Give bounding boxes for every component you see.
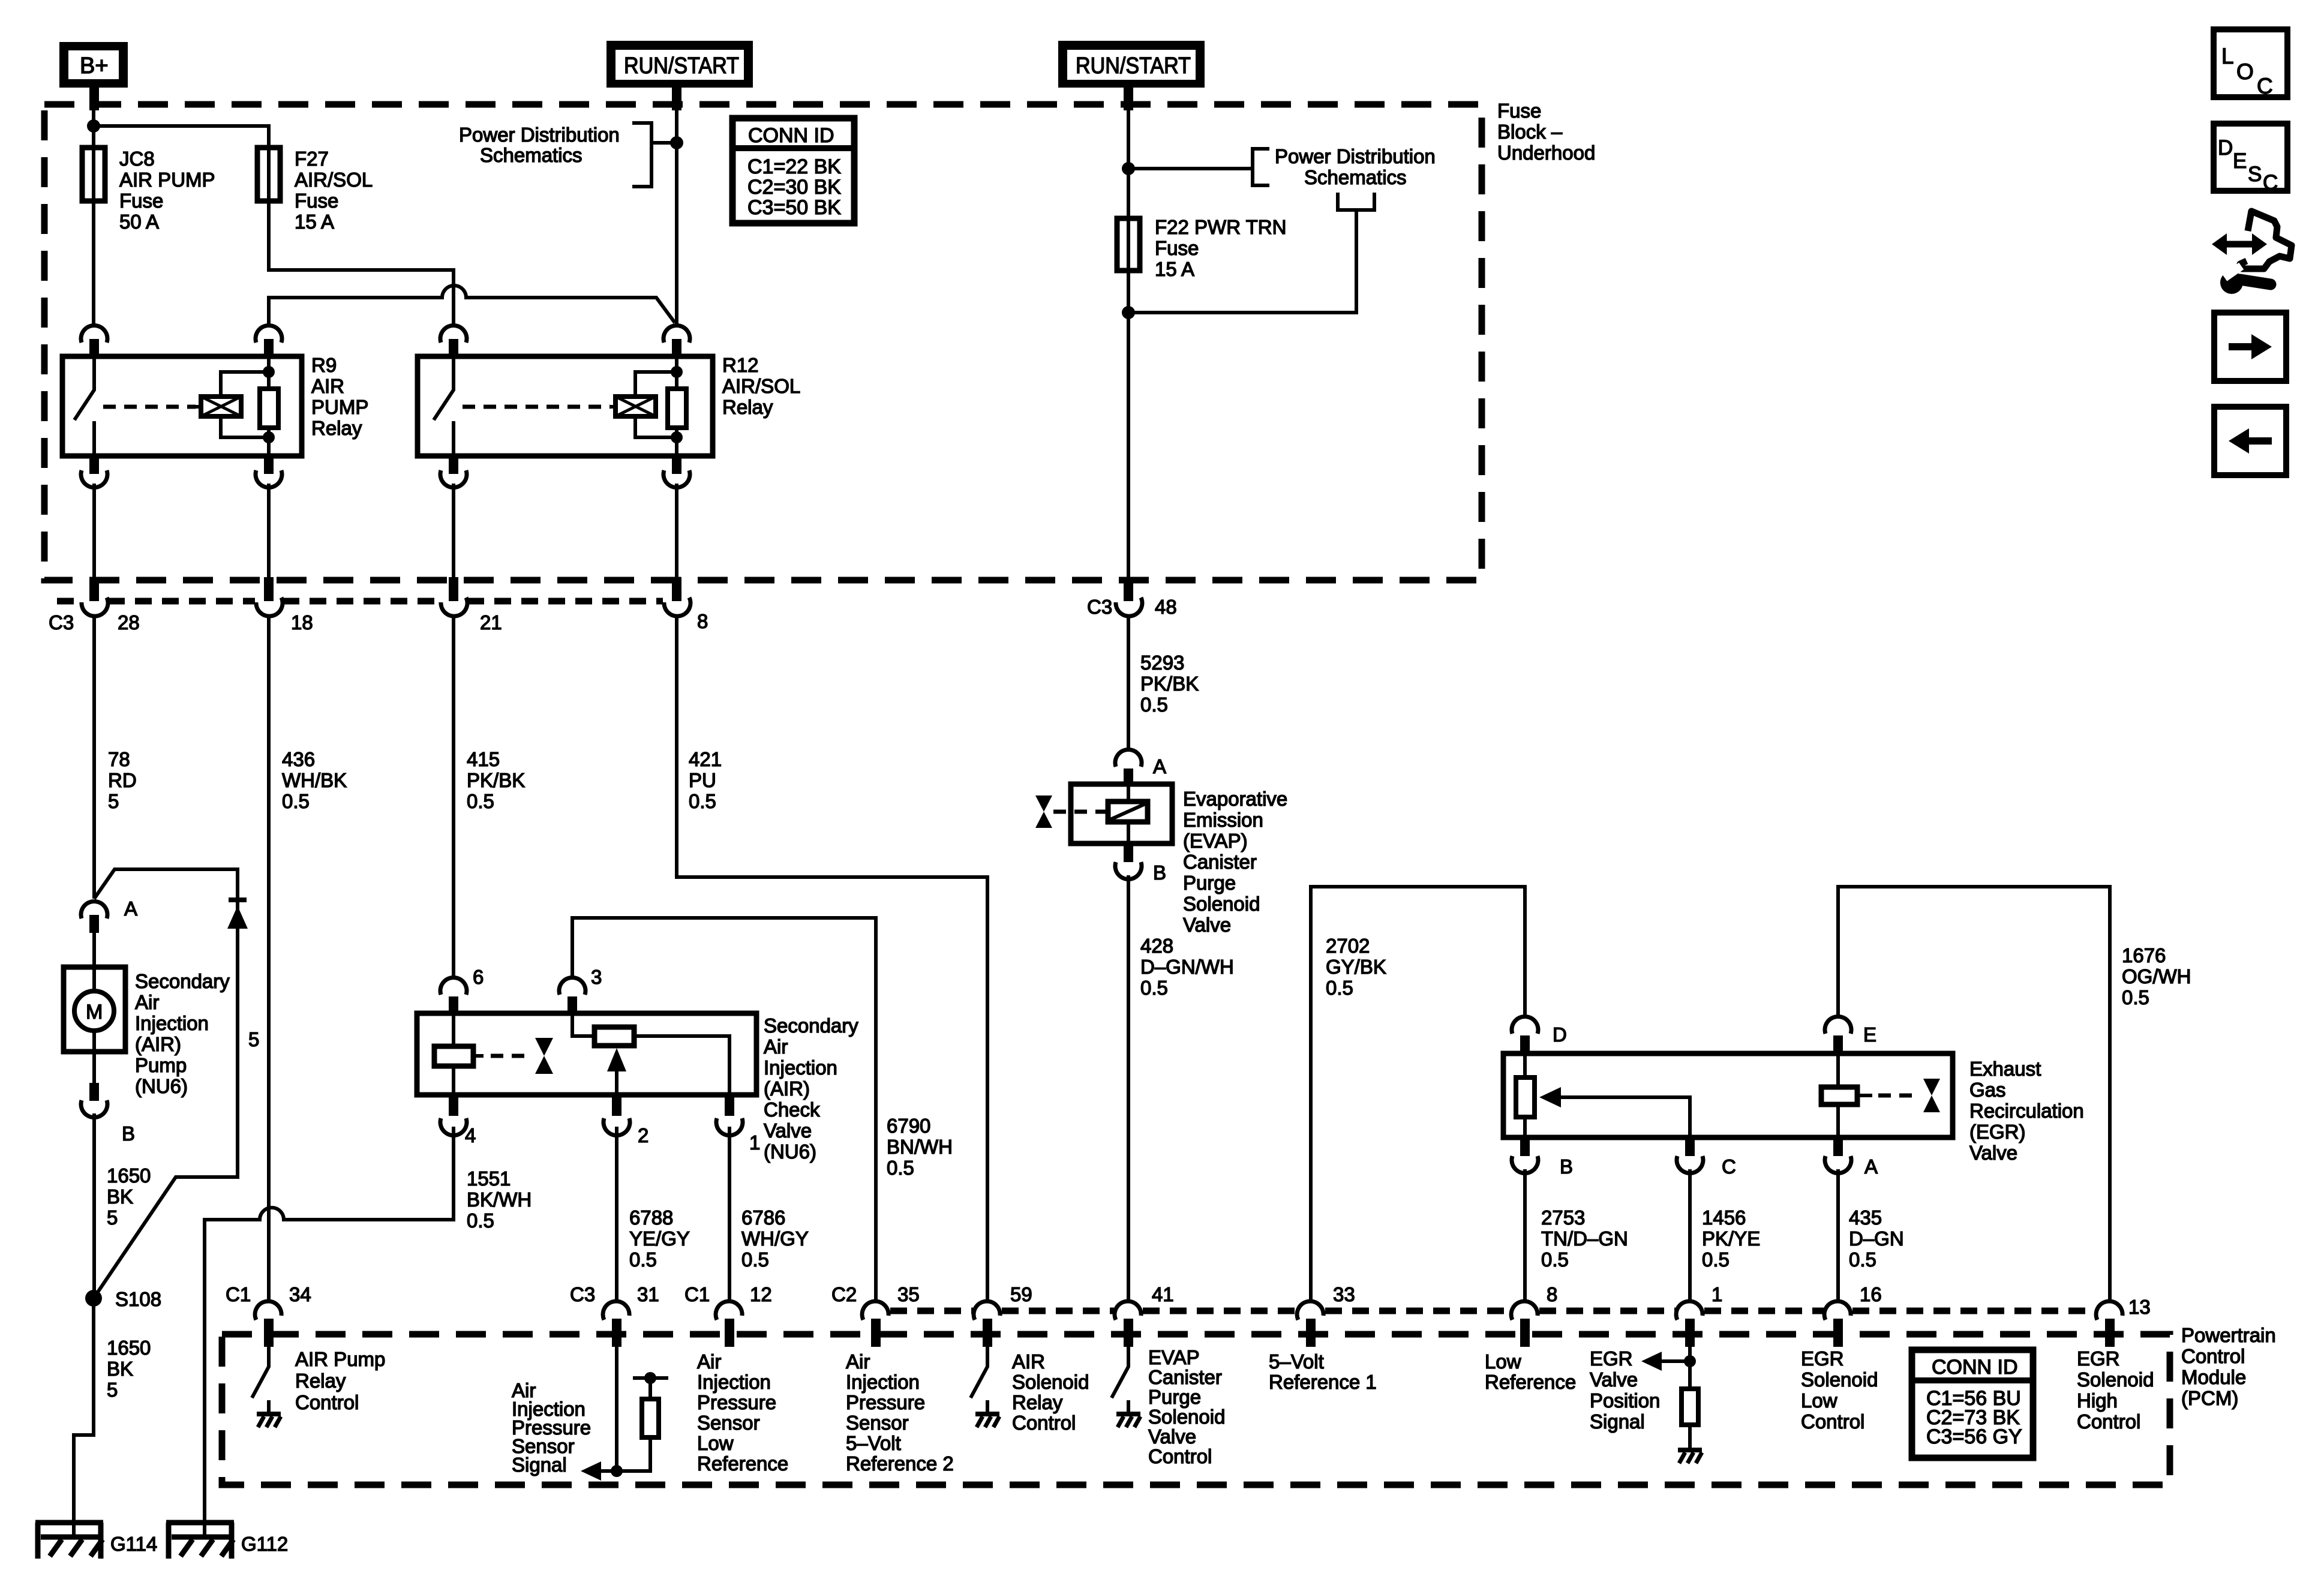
svg-text:D–GN/WH: D–GN/WH [1140,956,1234,978]
svg-text:D–GN: D–GN [1849,1227,1904,1250]
pin arc EVAP B [1124,843,1133,862]
svg-text:6786: 6786 [741,1206,785,1229]
coil actuate dash R12 [463,405,610,409]
svg-text:PUMP: PUMP [311,396,368,418]
svg-text:EVAP: EVAP [1148,1346,1200,1368]
svg-text:Canister: Canister [1148,1366,1222,1388]
EGR valve box [1503,1053,1953,1137]
resistor R9 [267,356,271,456]
wire 2702 GY/BK from PCM pin 33 to EGR pin D [1311,887,1525,1303]
svg-text:Injection: Injection [697,1371,771,1393]
node junction to schematic reference lower [1122,306,1135,319]
svg-text:6788: 6788 [629,1206,673,1229]
pin arc PCM at x=3064 [1824,1301,1851,1320]
svg-text:High: High [2077,1389,2118,1412]
svg-text:1676: 1676 [2122,944,2166,966]
svg-text:Schematics: Schematics [480,144,582,166]
svg-text:0.5: 0.5 [467,1209,494,1232]
svg-text:Signal: Signal [1590,1410,1645,1433]
AIR check valve box [417,1013,756,1095]
svg-text:59: 59 [1010,1283,1032,1305]
wire RUN/START 2 through F22 [1127,88,1130,218]
pin arc EGR C [1685,1137,1695,1156]
relay R9 [62,325,368,487]
coil leads R12 [635,372,677,437]
svg-text:(NU6): (NU6) [135,1075,188,1097]
svg-text:A: A [124,897,137,920]
svg-text:Recirculation: Recirculation [1969,1100,2084,1122]
pin arc check valve 6 [440,977,467,995]
pin arc R12 bottom right [672,456,681,474]
svg-text:436: 436 [282,748,315,770]
pin arc connector C3 at x=1128 [664,598,690,616]
svg-text:CONN ID: CONN ID [748,124,834,147]
node RUN/START 1 box [606,41,753,88]
svg-text:28: 28 [118,611,140,634]
bracket reference 1 [632,123,677,187]
wire 5293 PK/BK from pin 48 to EVAP pin A [1127,616,1130,750]
svg-text:0.5: 0.5 [741,1248,769,1271]
wire RUN/START 2 stub [1124,88,1133,110]
svg-text:Reference 1: Reference 1 [1269,1371,1377,1393]
node junction RUN/START 1 to schematic reference [670,136,683,149]
pressure sensor in check valve [572,1013,594,1036]
svg-text:WH/BK: WH/BK [282,769,347,791]
svg-text:C1: C1 [684,1283,710,1305]
pin arc R9 85 (bottom right) [264,456,274,474]
svg-text:Fuse: Fuse [295,190,338,212]
CONN ID table 1 [732,118,854,223]
svg-text:Low: Low [697,1432,734,1454]
svg-text:BK/WH: BK/WH [467,1188,532,1211]
svg-text:428: 428 [1140,935,1173,957]
svg-text:5–Volt: 5–Volt [1269,1350,1324,1373]
svg-text:JC8: JC8 [119,148,155,170]
switch R12 [434,356,454,456]
pin arc R12 switch top [440,325,467,343]
svg-text:AIR Pump: AIR Pump [295,1348,385,1370]
svg-text:50 A: 50 A [119,211,159,233]
svg-text:Secondary: Secondary [764,1014,858,1037]
svg-text:AIR/SOL: AIR/SOL [722,375,800,397]
svg-text:Reference 2: Reference 2 [846,1452,954,1475]
relay R12 [418,325,800,487]
svg-text:Control: Control [2077,1410,2140,1433]
svg-text:34: 34 [289,1283,311,1305]
svg-text:Control: Control [1148,1445,1212,1467]
fuse block - underhood dashed box [44,104,1482,580]
svg-text:Reference: Reference [697,1452,788,1475]
pin arc EGR E [1825,1016,1851,1034]
wire 1456 PK/YE from EGR C to PCM pin 1 [1688,1169,1692,1303]
svg-text:S: S [2248,163,2262,186]
motor M [74,991,114,1031]
svg-text:33: 33 [1333,1283,1355,1305]
svg-text:421: 421 [689,748,722,770]
svg-text:Relay: Relay [722,396,773,418]
svg-text:Fuse: Fuse [119,190,163,212]
svg-text:Solenoid: Solenoid [1012,1371,1089,1393]
CONN ID table 2 [1912,1350,2033,1458]
svg-text:OG/WH: OG/WH [2122,965,2191,987]
svg-text:PK/BK: PK/BK [1140,673,1199,695]
PCM signal arrow resistor ground below pin 1 [1662,1347,1690,1449]
wire pump bottom [92,1031,96,1086]
fuse JC8 [82,148,105,201]
icon arrow left box [2214,407,2286,475]
wire R12 pin down right [675,484,678,577]
ground G112 [166,1523,288,1559]
wire F22 down to C3 pin 48 [1127,271,1130,577]
svg-text:Injection: Injection [135,1012,209,1034]
svg-text:Control: Control [1012,1412,1076,1434]
svg-text:2702: 2702 [1326,935,1370,957]
pin arc R9 87 (bottom left) [89,456,99,474]
svg-text:Position: Position [1590,1389,1660,1412]
wire 415 PK/BK down from pin 21 to check valve pin 6 [452,616,455,978]
PCM switch and ground below pin 41 [1112,1347,1128,1413]
pin arc check valve 4 [449,1095,458,1116]
svg-text:C: C [2257,74,2273,98]
wire 1676 OG/WH from PCM pin 13 to EGR pin E [1838,887,2110,1303]
pin arc R9 30 (switch top) [81,325,107,343]
pin arc connector C3 at x=448 [256,598,283,616]
svg-text:16: 16 [1860,1283,1882,1305]
wire stub through fuse block border at x=448 [264,577,274,601]
icon DESC box [2214,124,2287,194]
svg-text:15 A: 15 A [295,211,334,233]
svg-text:6790: 6790 [887,1115,930,1137]
coil R12 (box with X) [615,397,656,416]
svg-text:C3: C3 [570,1283,595,1305]
svg-text:C3=56 GY: C3=56 GY [1926,1425,2022,1448]
svg-text:C2=30 BK: C2=30 BK [747,176,841,199]
svg-text:Emission: Emission [1183,809,1263,831]
wire 2753 TN/D-GN from EGR B to PCM pin 8 [1523,1169,1527,1303]
svg-text:C3: C3 [49,611,74,634]
coil actuate dash R9 [103,405,196,409]
svg-text:Solenoid: Solenoid [2077,1368,2154,1391]
svg-text:G112: G112 [241,1533,288,1555]
svg-text:PU: PU [689,769,716,791]
svg-text:M: M [86,1001,103,1023]
pin arc EGR A [1833,1137,1843,1156]
svg-text:3: 3 [591,966,602,988]
svg-text:Valve: Valve [1148,1425,1196,1448]
valve symbol check valve [535,1038,553,1056]
wire into pump [92,932,96,991]
svg-text:415: 415 [467,748,500,770]
wire branch to diode from pump pin A [94,869,238,1298]
svg-text:E: E [2233,149,2247,173]
svg-text:G114: G114 [110,1533,157,1555]
svg-text:5: 5 [107,1206,118,1229]
wire 436 WH/BK down from pin 18 to PCM pin 34 [267,616,271,1303]
svg-text:6: 6 [473,966,484,988]
svg-text:1: 1 [1712,1283,1722,1305]
svg-text:RUN/START: RUN/START [624,53,739,79]
wire R9 pin 85 down [267,484,271,577]
pin arc check valve 2 [612,1095,621,1116]
svg-text:18: 18 [291,611,313,634]
svg-text:0.5: 0.5 [629,1248,657,1271]
svg-text:WH/GY: WH/GY [741,1227,809,1250]
pin arc PCM at x=1646 [974,1301,1000,1320]
svg-text:BN/WH: BN/WH [887,1136,953,1158]
svg-text:15 A: 15 A [1155,258,1194,280]
PCM connector short-dash line [890,1308,973,1314]
svg-text:0.5: 0.5 [1140,694,1168,716]
pin arc PCM at x=2185 [1297,1301,1323,1320]
wire 78 RD down from pin 28 [92,616,96,899]
sensor wiper arrow [615,1071,618,1095]
wire stub through fuse block border at x=1881 [1124,577,1133,601]
EGR position sensor potentiometer [1523,1053,1527,1137]
pin arc PCM at x=1460 [862,1301,888,1320]
svg-text:Valve: Valve [1969,1142,2017,1164]
svg-text:Reference: Reference [1485,1371,1576,1393]
pin arc check valve 1 [725,1095,734,1116]
resistor R12 [675,356,678,456]
EVAP solenoid [1127,784,1130,843]
node junction dots R12 [671,366,683,378]
wire 6786 WH/GY from check valve 1 to PCM pin 12 [728,1127,731,1303]
wire 1650 BK from pump B to S108 [92,1113,96,1298]
svg-text:GY/BK: GY/BK [1326,956,1386,978]
svg-text:Pressure: Pressure [846,1391,925,1413]
svg-text:Module: Module [2181,1366,2246,1388]
wire RUN/START 1 stub [672,88,681,110]
svg-text:B: B [1153,861,1166,884]
svg-text:AIR/SOL: AIR/SOL [295,169,373,191]
PCM switch and ground below pin 59 [971,1347,987,1413]
switch R9 [74,356,94,456]
svg-text:1551: 1551 [467,1167,511,1190]
pin arc R12 bottom left [449,456,458,474]
svg-text:Secondary: Secondary [135,970,230,992]
svg-text:Solenoid: Solenoid [1801,1368,1878,1391]
diode (one-way check) on circuit 5 [229,897,247,902]
svg-text:2: 2 [638,1124,648,1146]
svg-text:C3=50 BK: C3=50 BK [747,196,841,219]
svg-text:Exhaust: Exhaust [1969,1058,2041,1080]
svg-text:Control: Control [2181,1345,2245,1367]
wire B+ to JC8 and F27 [94,88,269,148]
svg-text:5–Volt: 5–Volt [846,1432,901,1454]
svg-text:Air: Air [697,1350,721,1373]
svg-text:8: 8 [1547,1283,1557,1305]
svg-text:C1: C1 [226,1283,251,1305]
svg-text:Evaporative: Evaporative [1183,788,1287,810]
svg-text:F22 PWR TRN: F22 PWR TRN [1155,216,1286,238]
EGR solenoid [1836,1053,1840,1137]
svg-text:Fuse: Fuse [1155,237,1199,259]
EGR wiper arrow [1539,1087,1561,1107]
node junction to schematic reference upper [1122,162,1135,175]
pin arc connector C3 at x=756 [441,598,467,616]
fuse F27 [257,148,280,201]
svg-text:Underhood: Underhood [1497,142,1595,164]
icon arrow right box [2214,313,2286,381]
wire stub through fuse block border at x=756 [449,577,458,601]
svg-text:BK: BK [107,1358,133,1380]
pin arc EGR B [1520,1137,1530,1156]
svg-text:Check: Check [764,1098,820,1121]
svg-text:1: 1 [749,1131,760,1154]
svg-text:R12: R12 [722,354,759,376]
svg-text:5293: 5293 [1140,652,1184,674]
svg-text:Block –: Block – [1497,121,1563,143]
svg-text:0.5: 0.5 [2122,986,2149,1008]
svg-text:0.5: 0.5 [689,790,716,812]
svg-text:Power Distribution: Power Distribution [1275,145,1436,167]
svg-text:5: 5 [108,790,119,812]
svg-text:Pump: Pump [135,1054,187,1076]
svg-text:5: 5 [107,1379,118,1401]
svg-text:(EVAP): (EVAP) [1183,830,1248,852]
pin arc check valve 3 [559,977,585,995]
svg-text:31: 31 [637,1283,659,1305]
pin arc PCM at x=2817 [1676,1301,1703,1320]
solenoid in check valve [452,1013,455,1095]
EVAP canister purge solenoid valve box [1071,784,1172,843]
svg-text:Gas: Gas [1969,1079,2006,1101]
svg-text:A: A [1153,755,1166,778]
svg-text:48: 48 [1155,596,1177,618]
icon vehicle with wrench [2212,211,2292,294]
pin arc connector C3 at x=157 [82,598,108,616]
svg-text:Canister: Canister [1183,851,1257,873]
svg-text:Valve: Valve [1183,914,1231,936]
svg-text:(AIR): (AIR) [764,1077,810,1100]
ground G114 [35,1523,157,1559]
svg-text:C: C [2263,171,2278,194]
svg-text:RD: RD [108,769,137,791]
svg-text:Air: Air [764,1035,788,1058]
svg-text:0.5: 0.5 [887,1157,914,1179]
svg-text:0.5: 0.5 [282,790,310,812]
svg-text:Relay: Relay [1012,1391,1063,1413]
pin arc R12 coil top [663,325,690,343]
svg-text:D: D [1553,1023,1567,1046]
svg-text:21: 21 [480,611,502,634]
svg-text:Solenoid: Solenoid [1148,1406,1225,1428]
svg-text:1650: 1650 [107,1164,151,1187]
svg-text:5: 5 [248,1028,259,1050]
svg-text:Relay: Relay [311,417,362,439]
bracket reference 2 lower cup [1128,193,1374,313]
svg-text:C: C [1722,1155,1736,1178]
pin arc PCM at x=448 [255,1301,281,1320]
svg-text:Solenoid: Solenoid [1183,893,1260,915]
svg-text:1456: 1456 [1702,1206,1746,1229]
svg-text:(PCM): (PCM) [2181,1387,2238,1409]
EGR actuate dashes [1878,1094,1918,1098]
svg-text:0.5: 0.5 [1849,1248,1876,1271]
svg-text:Injection: Injection [764,1056,837,1079]
wire B+ stub into fuse block [89,88,99,110]
bracket reference 2 [1128,149,1269,185]
svg-text:(NU6): (NU6) [764,1140,816,1163]
wire R9 pin 87 down [92,484,96,577]
svg-text:AIR PUMP: AIR PUMP [119,169,215,191]
svg-text:Valve: Valve [764,1119,812,1142]
svg-text:Low: Low [1801,1389,1837,1412]
svg-text:EGR: EGR [1801,1347,1844,1370]
svg-text:(AIR): (AIR) [135,1033,181,1055]
svg-text:Schematics: Schematics [1304,166,1407,188]
svg-text:AIR: AIR [1012,1350,1045,1373]
svg-text:C3: C3 [1087,596,1112,618]
wire RUN/START 1 down to R12 coil pin [675,88,678,324]
svg-text:AIR: AIR [311,375,344,397]
svg-text:B: B [1560,1155,1573,1178]
svg-text:Relay: Relay [295,1370,346,1392]
svg-text:0.5: 0.5 [1140,977,1168,999]
coil leads R9 [221,372,269,437]
PCM switch and ground below pin 34 [252,1347,269,1413]
svg-text:Powertrain: Powertrain [2181,1324,2276,1346]
svg-text:YE/GY: YE/GY [629,1227,690,1250]
pin arc PCM at x=1881 [1115,1301,1141,1320]
node junction on B+ feed [87,119,100,133]
svg-text:Injection: Injection [846,1371,920,1393]
pin arc R9 86 (coil top) [256,325,282,343]
svg-text:EGR: EGR [1590,1347,1633,1370]
svg-text:D: D [2218,136,2233,160]
svg-text:R9: R9 [311,354,337,376]
svg-text:Valve: Valve [1590,1368,1638,1391]
wire 1551 BK/WH from check valve 4 to G112 with hop [205,1127,454,1536]
pin arc AIR pump A [81,901,107,918]
svg-text:Air: Air [846,1350,870,1373]
node B+ battery feed box [59,42,128,88]
pin arc PCM at x=3517 [2096,1301,2122,1320]
svg-text:PK/BK: PK/BK [467,769,525,791]
wire stub through fuse block border at x=157 [89,577,99,601]
node RUN/START 2 box [1058,41,1205,88]
wire stub through fuse block border at x=1128 [672,577,681,601]
wire JC8 to R9 switch pin [92,201,95,325]
wire F27 to R12 switch pin [269,201,454,325]
svg-text:Power Distribution: Power Distribution [459,124,620,146]
EVAP valve symbol [1035,795,1052,812]
pin arc AIR pump B [89,1083,99,1101]
svg-text:S108: S108 [115,1288,161,1310]
svg-text:0.5: 0.5 [1326,977,1353,999]
PCM signal arrow and resistor below pin 31 [601,1347,668,1471]
svg-text:435: 435 [1849,1206,1882,1229]
wire coil bus R9 coil to R12 coil with hop over R12 switch wire [269,286,675,325]
svg-text:Control: Control [295,1391,359,1413]
svg-text:B+: B+ [80,53,109,79]
svg-text:L: L [2221,44,2234,68]
svg-text:E: E [1863,1023,1876,1046]
EGR valve symbol [1923,1079,1940,1095]
svg-text:Signal: Signal [512,1454,567,1476]
svg-text:Purge: Purge [1183,872,1236,894]
coil R9 (box with X) [201,397,241,416]
svg-text:RUN/START: RUN/START [1076,53,1191,79]
svg-text:78: 78 [108,748,130,770]
svg-text:4: 4 [465,1124,476,1146]
svg-text:8: 8 [697,610,708,632]
svg-text:0.5: 0.5 [467,790,494,812]
icon LOC box [2214,29,2287,98]
svg-text:12: 12 [750,1283,772,1305]
svg-text:A: A [1864,1155,1878,1178]
svg-text:1650: 1650 [107,1337,151,1359]
